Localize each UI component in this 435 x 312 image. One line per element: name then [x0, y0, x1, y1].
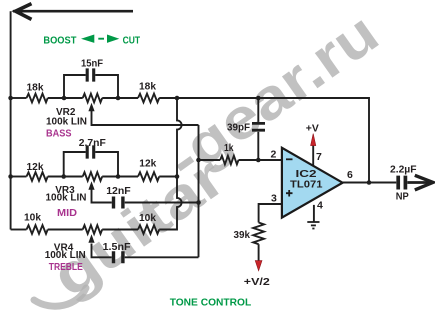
node A row2: [175, 174, 180, 179]
svg-text:100k LIN: 100k LIN: [46, 192, 87, 204]
svg-text:TREBLE: TREBLE: [49, 261, 83, 273]
capacitor 15nF plates: [87, 68, 94, 81]
ground symbol pin 4: [307, 222, 319, 229]
capacitor 2.2uF plates: [398, 176, 405, 190]
resistor 39k vertical: [253, 223, 264, 245]
svg-text:39k: 39k: [234, 229, 251, 241]
svg-text:18k: 18k: [139, 81, 156, 93]
wire line B vertical: [198, 125, 200, 257]
svg-text:18k: 18k: [27, 82, 44, 94]
wire 39pF top: [257, 98, 259, 122]
wire op-amp pin 4 stub: [313, 205, 315, 222]
wire op-amp pin 7 stub: [312, 145, 314, 167]
node VR3 right end: [116, 174, 121, 179]
node VR2 left end: [62, 96, 67, 101]
wire op-amp pin 3 to 39k: [259, 204, 282, 223]
svg-text:10k: 10k: [139, 212, 156, 224]
node 39pF top: [256, 96, 261, 101]
svg-text:15nF: 15nF: [81, 57, 104, 69]
svg-text:CUT: CUT: [123, 34, 141, 46]
wire 1.5nF to line B: [125, 256, 199, 258]
svg-text:100k LIN: 100k LIN: [46, 116, 87, 128]
node pin2 summing: [256, 158, 261, 163]
svg-text:1.5nF: 1.5nF: [103, 241, 132, 253]
node line B 12nF row: [196, 200, 201, 205]
op-amp IC2 triangle: [282, 148, 343, 218]
resistor 10k row3 right: [138, 225, 159, 234]
wire 12nF to line B: [125, 202, 199, 204]
wire row3 bus to 10k: [11, 229, 27, 231]
wire 12k to node A line: [159, 176, 177, 178]
wire left input bus: [10, 11, 12, 229]
resistor 1k: [220, 156, 238, 165]
wire 12k to VR3 left: [48, 176, 83, 178]
svg-text:2: 2: [271, 149, 277, 161]
wire 39k to +V/2 arrow: [258, 244, 260, 261]
wire VR3 wiper to 12nF: [92, 189, 112, 203]
watermark g tail stroke: [34, 288, 86, 306]
svg-text:NP: NP: [396, 191, 409, 203]
node row2 at bus: [8, 174, 13, 179]
resistor 18k row1 left: [27, 94, 48, 103]
svg-text:BOOST: BOOST: [43, 34, 77, 46]
svg-text:100k LIN: 100k LIN: [45, 249, 86, 261]
wire line B to 1k: [199, 159, 221, 161]
svg-text:12nF: 12nF: [106, 185, 131, 197]
svg-text:6: 6: [347, 169, 353, 181]
wire row1 bus to 18k: [11, 97, 27, 99]
wire op-amp output to 2.2uF: [343, 182, 397, 184]
wire 18k to node A: [159, 97, 177, 99]
node VR3 left end: [61, 174, 66, 179]
VR4 wiper arrow: [88, 234, 94, 242]
resistor 18k row1 right: [138, 94, 159, 103]
wire 2.7nF branch left: [64, 152, 86, 177]
op-amp minus sign: [286, 158, 293, 160]
VR3 wiper arrow: [88, 181, 94, 189]
resistor 12k row2 right: [138, 172, 159, 181]
wire VR2 right to 18k: [102, 97, 138, 99]
svg-text:7: 7: [316, 151, 322, 163]
node A top row1: [175, 96, 180, 101]
svg-text:MID: MID: [57, 207, 77, 219]
wire 18k to node VR2 left: [48, 97, 83, 99]
wire 39pF bottom: [257, 132, 259, 160]
svg-text:2.7nF: 2.7nF: [79, 137, 107, 149]
svg-text:+V/2: +V/2: [244, 276, 270, 288]
wire top input line: [13, 10, 133, 13]
wire 10k to VR4: [48, 229, 83, 231]
svg-text:2.2µF: 2.2µF: [390, 164, 417, 176]
capacitor 12nF plates: [114, 197, 123, 209]
svg-text:TL071: TL071: [290, 179, 323, 191]
wire vertical node-A with hops: [159, 98, 181, 230]
BOOST/CUT green left arrow: [81, 35, 94, 43]
wire VR3 right to 12k: [102, 176, 138, 178]
node VR2 right end: [116, 96, 121, 101]
potentiometer VR3 track: [83, 172, 102, 181]
wire feedback top: [177, 98, 369, 183]
output arrow head (open, pointing right): [415, 175, 433, 190]
wire 15nF branch right: [95, 75, 118, 98]
svg-text:BASS: BASS: [46, 127, 72, 139]
svg-text:39pF: 39pF: [227, 122, 251, 134]
svg-text:3: 3: [271, 193, 277, 205]
svg-text:+V: +V: [306, 123, 319, 135]
wire 15nF branch left: [64, 75, 86, 98]
VR2 wiper arrow: [88, 103, 94, 111]
wire 1k to op-amp pin 2: [239, 159, 282, 161]
+V/2 supply arrow (red, down): [255, 261, 262, 271]
+V supply arrow (red, up): [311, 134, 316, 146]
wire 2.2uF to output arrow: [407, 181, 429, 184]
op-amp plus sign: [286, 190, 293, 197]
wire VR4 wiper to 1.5nF: [92, 244, 112, 258]
potentiometer VR2 track: [83, 94, 102, 103]
wire 2.7nF branch right: [95, 152, 118, 177]
potentiometer VR4 track: [83, 225, 102, 234]
svg-text:1k: 1k: [224, 142, 234, 154]
capacitor 2.7nF plates: [87, 145, 94, 158]
resistor 10k row3 left: [27, 225, 48, 234]
resistor 12k row2 left: [27, 172, 48, 181]
wire row2 bus to 12k: [11, 176, 27, 178]
svg-text:TONE CONTROL: TONE CONTROL: [170, 296, 252, 308]
BOOST/CUT green right arrow: [107, 35, 119, 43]
wire VR2 wiper to line B: [92, 111, 199, 126]
capacitor 1.5nF plates: [114, 251, 123, 263]
input arrow head (open, pointing left): [16, 4, 32, 20]
svg-text:12k: 12k: [139, 158, 156, 170]
svg-text:12k: 12k: [27, 161, 44, 173]
node row1 at bus: [8, 96, 13, 101]
svg-text:10k: 10k: [24, 212, 41, 224]
node output: [367, 180, 372, 185]
wire VR4 to 10k: [102, 229, 138, 231]
svg-text:4: 4: [317, 200, 323, 212]
capacitor 39pF plates: [252, 123, 265, 130]
node line B 1k row: [196, 158, 201, 163]
BOOST/CUT green dash: [98, 38, 104, 40]
